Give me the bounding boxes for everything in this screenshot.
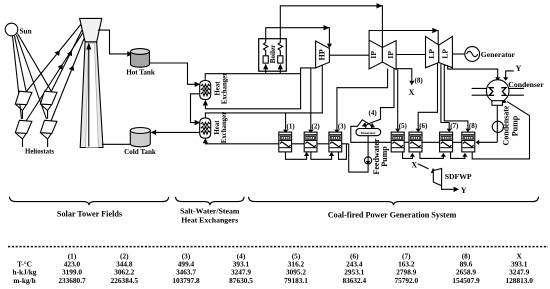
arrow into deaerator left flank: [361, 122, 367, 128]
reheat steam pipe boiler to IP: [280, 6, 382, 47]
pipe X to SDFWP: [418, 164, 429, 169]
svg-text:Condenser: Condenser: [508, 80, 544, 89]
svg-text:X: X: [411, 161, 417, 170]
svg-text:83632.4: 83632.4: [342, 276, 366, 285]
condenser shell: [486, 80, 509, 103]
arrow into boiler left tube: [263, 64, 268, 70]
svg-text:3199.0: 3199.0: [62, 267, 82, 276]
sun: [5, 23, 18, 36]
svg-text:HP: HP: [317, 49, 326, 60]
heater 6: [409, 132, 422, 152]
HX2 coil 2: [201, 126, 210, 129]
HEATERS-ROW: [287, 109, 478, 130]
svg-text:Cold Tank: Cold Tank: [124, 148, 156, 156]
heater drain 2 to 3: [311, 152, 332, 159]
svg-text:Heat: Heat: [214, 120, 221, 135]
pipe HX2 to cold tank: [156, 131, 200, 133]
heater drain 3 to feedwater riser: [339, 144, 347, 160]
boiler right tube zigzag: [278, 39, 282, 56]
boiler left tube zigzag: [264, 39, 268, 56]
extraction 2 line: [310, 68, 312, 130]
pipe HP to IP: [329, 54, 369, 56]
HX2 coil 3: [201, 131, 210, 134]
pipe cold tank to tower: [102, 143, 131, 145]
reflected ray 4 arrowhead: [69, 64, 76, 71]
svg-text:103797.8: 103797.8: [172, 276, 200, 285]
condensate line: [496, 105, 498, 142]
reflected ray 3 arrowhead: [58, 63, 66, 70]
boiler left tube square: [263, 56, 268, 63]
svg-text:154507.9: 154507.9: [452, 276, 480, 285]
svg-text:233680.7: 233680.7: [58, 276, 86, 285]
sun ray 3: [17, 35, 47, 119]
deaerator vessel: [356, 129, 381, 136]
svg-text:LP: LP: [440, 49, 449, 59]
deaerator dome: [366, 124, 372, 129]
arrow into heater 1: [283, 130, 288, 134]
extraction 5 line: [397, 70, 399, 129]
svg-text:Coal-fired Power Generation Sy: Coal-fired Power Generation System: [328, 210, 457, 219]
reflected ray 2: [51, 27, 84, 92]
generator: [465, 47, 480, 62]
LP turbine right wing: [439, 36, 453, 67]
heater 8: [462, 132, 475, 152]
tower inner wall: [86, 44, 99, 148]
cooling water lines left: [472, 88, 488, 95]
svg-text:87630.5: 87630.5: [229, 276, 253, 285]
svg-text:Solar Tower Fields: Solar Tower Fields: [57, 210, 122, 219]
sun ray 1: [13, 36, 22, 119]
heliostat mirror 4: [40, 120, 57, 133]
extraction 1 branch: [285, 113, 287, 130]
arrow into heater 8 from condensate pump: [479, 141, 498, 143]
boiler riser right: [279, 69, 281, 73]
condenser hotwell: [492, 101, 503, 106]
heliostat post 1: [16, 105, 26, 119]
arrow up into heater 6 bottom: [410, 153, 415, 157]
feedwater pump: [365, 157, 372, 164]
svg-text:Deaerator: Deaerator: [361, 131, 376, 135]
svg-text:(4): (4): [369, 109, 378, 117]
IP turbine left wing: [369, 40, 382, 69]
BRACES: [10, 197, 539, 225]
HX1 coil 1: [201, 84, 210, 87]
arrow into condenser bottom: [500, 98, 507, 105]
reflected ray 1: [26, 23, 82, 92]
arrow up into HX1: [203, 100, 208, 106]
brace Solar Tower Fields: [10, 197, 169, 205]
svg-text:2953.1: 2953.1: [344, 267, 364, 276]
svg-text:Condensate: Condensate: [502, 105, 511, 145]
HX1 coil 3: [201, 92, 210, 95]
condenser internal left: [489, 88, 494, 96]
heater 2: [304, 132, 317, 152]
svg-text:m-kg/h: m-kg/h: [13, 276, 35, 285]
arrow into heater 8: [465, 129, 470, 133]
svg-text:Y: Y: [516, 64, 522, 73]
table dashed rule: [8, 246, 548, 248]
svg-text:128813.0: 128813.0: [506, 276, 534, 285]
pipe HX1 top to reheat header: [205, 74, 300, 81]
arrow into heater 5: [395, 129, 400, 133]
arrow up into heater 3 bottom: [329, 152, 334, 156]
arrow into heater 7: [447, 129, 452, 133]
cold tank top: [130, 128, 150, 134]
main steam arrow down into HP: [327, 44, 332, 49]
main steam pipe boiler to HP: [266, 28, 330, 44]
svg-text:Pump: Pump: [511, 115, 520, 136]
crossover pipe IP to LP: [369, 31, 438, 45]
svg-text:3095.2: 3095.2: [286, 267, 306, 276]
arrow into deaerator right flank: [370, 123, 377, 130]
table enthalpy row: [13, 267, 530, 276]
arrow to Y: [454, 187, 460, 192]
svg-text:(1): (1): [287, 122, 296, 130]
heater 5: [391, 132, 404, 152]
arrow into SDFWP: [431, 168, 438, 175]
SDFWP outlet pipe: [442, 186, 454, 190]
svg-text:Sun: Sun: [20, 27, 32, 36]
svg-text:(8): (8): [469, 122, 478, 130]
POWER-SECTION: [205, 3, 515, 97]
arrow into cold tank: [151, 130, 157, 135]
heater 8 drain to condenser: [472, 102, 529, 159]
arrow up into heater 8 bottom: [462, 153, 467, 157]
HX1 bottom stub: [204, 105, 206, 109]
svg-text:(8): (8): [415, 77, 424, 85]
sun ray 2: [15, 36, 27, 91]
svg-text:Salt-Water/Steam: Salt-Water/Steam: [180, 206, 240, 215]
pipe HX1 to HX2 (salt): [191, 94, 200, 123]
heater 7: [440, 132, 453, 152]
svg-text:(6): (6): [419, 122, 428, 130]
arrow up into heater 7 bottom: [441, 153, 446, 157]
TABLE: [8, 247, 548, 286]
main steam arrow right: [324, 25, 330, 30]
cold tank body: [130, 131, 150, 147]
feedwater line through HP heaters: [205, 142, 348, 143]
heater drain 6 to 7: [420, 152, 444, 159]
arrow into condenser right: [503, 77, 508, 81]
feedwater pump discharge: [349, 136, 368, 172]
heater drain 5 to 6: [403, 152, 413, 159]
svg-text:(2): (2): [312, 122, 321, 130]
LP extraction to heater 7: [441, 64, 449, 129]
condenser internal right: [501, 88, 506, 96]
reflected ray 1 arrowhead: [55, 49, 63, 57]
boiler shell: [259, 39, 287, 71]
SDFWP-GROUP: [411, 161, 472, 196]
LP turbine left wing: [426, 36, 439, 67]
feedwater line through LP heaters: [351, 120, 476, 143]
svg-text:Hot Tank: Hot Tank: [126, 69, 155, 77]
arrow into boiler right tube: [278, 64, 283, 70]
LP extraction to heater 8: [444, 65, 468, 129]
receiver: [80, 18, 102, 41]
hot tank top: [131, 49, 150, 55]
EXTRACTIONS-HEATERS: [203, 64, 522, 134]
svg-text:3247.9: 3247.9: [231, 267, 251, 276]
Y pipe into condenser: [506, 71, 514, 77]
arrow up into HX2 bottom: [203, 138, 208, 143]
reheat arrow right: [377, 3, 383, 8]
svg-text:SDFWP: SDFWP: [445, 172, 472, 181]
arrow into heater 3: [334, 130, 339, 134]
extraction 3 line: [337, 69, 388, 130]
svg-text:IP: IP: [386, 51, 395, 59]
reflected ray 4: [51, 35, 86, 121]
table header row: [68, 251, 523, 260]
heater drain 1 to 2: [286, 152, 307, 159]
pipe hot tank to HX1: [150, 63, 195, 84]
svg-text:Boiler: Boiler: [269, 44, 277, 64]
LP extraction to heater 6: [418, 64, 437, 129]
tower riser pipe: [88, 50, 90, 147]
LP exhaust to condenser: [448, 65, 498, 77]
FEEDWATER-LINES: [203, 98, 530, 174]
condensate pump: [492, 121, 503, 132]
heliostat post 3: [16, 133, 26, 147]
crossover arrow right: [432, 28, 438, 33]
tower body: [80, 42, 103, 148]
arrow into HX1: [195, 82, 201, 87]
HX1 coil 2: [201, 88, 210, 91]
heater drain 7 to 8: [451, 152, 465, 159]
table mass-flow row: [13, 276, 533, 285]
heliostat post 2: [41, 105, 51, 119]
heat exchanger HX1 shell: [200, 81, 211, 100]
svg-text:3247.9: 3247.9: [509, 267, 529, 276]
SDFWP turbine: [433, 169, 441, 186]
heater 3: [329, 132, 342, 152]
boiler right tube square: [278, 56, 283, 63]
hot tank body: [131, 52, 150, 68]
IP turbine right wing: [382, 41, 396, 70]
boiler riser left: [265, 69, 267, 73]
reflected ray 3: [26, 31, 84, 121]
table temperature row: [17, 259, 528, 268]
arrow into hot tank: [127, 51, 133, 56]
cooling water lines right: [508, 88, 524, 95]
heliostat mirror 1: [15, 91, 32, 105]
svg-text:Pump: Pump: [380, 146, 389, 167]
extraction 4 line to deaerator: [368, 69, 394, 124]
arrow up into heater 2 bottom: [304, 152, 309, 156]
svg-text:(7): (7): [450, 122, 459, 130]
svg-text:3463.7: 3463.7: [176, 267, 196, 276]
arrow into heater 6: [416, 129, 421, 133]
heliostat mirror 2: [40, 91, 57, 105]
extraction X from crossover: [396, 69, 412, 81]
svg-text:Heat: Heat: [214, 81, 221, 96]
LP-HEATERS: [391, 132, 497, 152]
pipe receiver to hot tank: [98, 30, 127, 54]
svg-text:226384.5: 226384.5: [111, 276, 139, 285]
arrow into heater 2: [308, 130, 313, 134]
svg-text:IP: IP: [369, 51, 378, 59]
generator sine: [467, 51, 478, 56]
CONDENSER-GROUP: [472, 80, 545, 146]
tower riser arrowhead: [86, 43, 91, 50]
reflected ray 2 arrowhead: [67, 49, 74, 56]
svg-text:Heliostats: Heliostats: [25, 149, 54, 156]
svg-text:Heat Exchangers: Heat Exchangers: [181, 215, 238, 224]
pipe LP to generator: [452, 53, 464, 55]
brace Heat Exchangers: [176, 197, 245, 205]
heat exchanger HX2 shell: [200, 118, 211, 138]
svg-text:Exchanger: Exchanger: [221, 112, 228, 143]
svg-text:2658.9: 2658.9: [456, 267, 476, 276]
heliostat post 4: [41, 133, 51, 147]
heliostat mirror 3: [15, 120, 32, 133]
svg-text:79183.1: 79183.1: [284, 276, 308, 285]
arrow into condenser left: [495, 77, 500, 81]
pipe IP to LP lower: [396, 54, 425, 56]
svg-text:(3): (3): [338, 122, 347, 130]
HX2 coil 1: [201, 122, 210, 125]
svg-text:LP: LP: [427, 49, 436, 59]
brace Coal-fired: [249, 197, 539, 205]
svg-text:X: X: [409, 88, 415, 97]
svg-text:3062.2: 3062.2: [114, 267, 134, 276]
svg-text:75792.0: 75792.0: [394, 276, 418, 285]
svg-text:h-kJ/kg: h-kJ/kg: [13, 267, 37, 276]
HP-HEATERS: [279, 132, 342, 152]
arrow X down: [409, 81, 414, 86]
svg-text:Exchanger: Exchanger: [221, 73, 228, 104]
svg-text:(5): (5): [399, 122, 408, 130]
svg-text:Generator: Generator: [481, 50, 516, 59]
HP exhaust corner line: [205, 68, 315, 109]
arrow into HX2: [195, 120, 201, 125]
sun ray 4: [18, 34, 52, 91]
heater 1: [279, 132, 292, 152]
svg-text:Y: Y: [461, 186, 467, 195]
HP turbine: [316, 41, 330, 68]
svg-text:2798.9: 2798.9: [396, 267, 416, 276]
extraction 1 and HX2 steam line: [205, 65, 322, 118]
